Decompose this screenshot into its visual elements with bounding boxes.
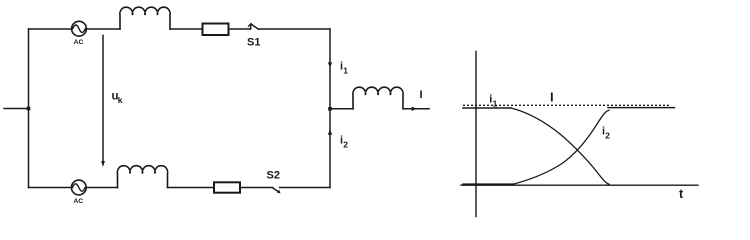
wire S2 to bottom-right corner <box>280 187 330 189</box>
svg-text:AC: AC <box>74 39 84 46</box>
wire L3 to output <box>403 108 429 110</box>
label u_k <box>112 91 123 106</box>
wire AC to L1 <box>86 28 120 30</box>
wire R1 to S1 <box>229 28 251 30</box>
curve i2 initial zero level <box>463 183 513 185</box>
curve i1 decay <box>511 108 609 184</box>
wire top to AC source <box>29 28 72 30</box>
wire L2 to R2 <box>168 187 215 189</box>
svg-text:2: 2 <box>605 131 610 141</box>
curve i2 rise <box>513 110 609 184</box>
arrow i1 (down) <box>328 62 332 67</box>
svg-text:S1: S1 <box>247 37 260 49</box>
inductor L1 <box>120 7 170 29</box>
svg-text:2: 2 <box>343 140 348 150</box>
AC source V2 <box>71 180 86 195</box>
wire AC to L2 <box>86 187 117 189</box>
dashed line I level <box>463 104 671 106</box>
wire L1 to R1 <box>170 28 203 30</box>
wire left input stub <box>4 108 29 110</box>
svg-text:1: 1 <box>343 66 348 76</box>
label i1 (graph) <box>489 94 497 109</box>
wire R2 to S2 <box>240 187 273 189</box>
AC source V1 <box>72 21 87 36</box>
wire node to L3 <box>330 108 353 110</box>
wire right vertical upper (i1 branch) <box>329 29 331 109</box>
arrow i2 (up) <box>328 130 332 135</box>
wire S1 to top-right corner <box>258 28 330 30</box>
label i2 (circuit) <box>340 135 348 150</box>
wire left vertical bus <box>28 29 30 188</box>
switch S1 <box>248 24 258 30</box>
node junction right <box>328 107 332 111</box>
graph vertical axis <box>475 51 477 216</box>
inductor L3 (load) <box>353 87 403 109</box>
resistor R1 <box>203 24 229 36</box>
arrow u_k (voltage, down) <box>101 35 105 167</box>
curve i1 initial level <box>463 107 511 109</box>
resistor R2 <box>214 182 240 192</box>
arrow I (right) <box>412 107 417 111</box>
inductor L2 <box>117 166 167 188</box>
svg-text:k: k <box>118 95 123 105</box>
wire right vertical lower (i2 branch) <box>329 109 331 188</box>
svg-text:I: I <box>420 89 423 101</box>
svg-text:S2: S2 <box>267 170 280 182</box>
curve i2 final level <box>608 107 675 109</box>
label i1 (circuit) <box>340 61 348 76</box>
wire bottom to AC source <box>29 187 72 189</box>
svg-text:I: I <box>550 90 554 105</box>
node junction left <box>27 107 31 111</box>
svg-text:AC: AC <box>73 198 83 205</box>
svg-text:1: 1 <box>493 99 498 109</box>
switch S2 <box>273 188 281 194</box>
graph time axis <box>461 184 698 186</box>
label i2 (graph) <box>602 126 610 141</box>
